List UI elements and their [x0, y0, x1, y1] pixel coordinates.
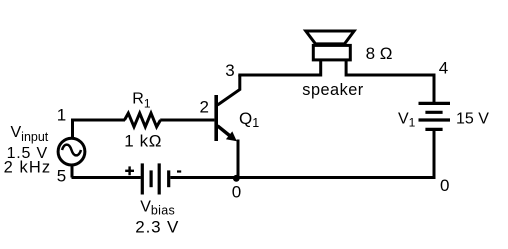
speaker terminals: [321, 60, 346, 77]
junction dot node 0: [233, 175, 240, 182]
svg-text:R1: R1: [132, 90, 151, 110]
svg-text:Q1: Q1: [239, 109, 259, 130]
transistor Q1 base bar: [214, 95, 218, 141]
battery V_bias: [142, 163, 168, 194]
speaker horn: [306, 31, 354, 44]
wire: bottom net left segment: [72, 176, 141, 179]
speaker box: [313, 45, 350, 60]
svg-text:1 kΩ: 1 kΩ: [124, 132, 162, 151]
svg-text:Vbias: Vbias: [140, 199, 175, 218]
svg-text:0: 0: [232, 182, 241, 201]
svg-text:5: 5: [57, 167, 66, 186]
svg-text:Vinput: Vinput: [11, 124, 49, 144]
svg-text:8 Ω: 8 Ω: [366, 44, 393, 63]
wire: node 1 corner (source top to resistor): [73, 120, 126, 139]
wire: emitter to node 0: [237, 140, 240, 178]
svg-text:15 V: 15 V: [456, 110, 489, 127]
polarity minus: [177, 170, 181, 172]
transistor Q1 emitter with arrow: [218, 126, 237, 141]
polarity plus: [125, 166, 134, 175]
svg-text:1: 1: [57, 105, 66, 124]
resistor R1: [125, 113, 161, 127]
battery V1: [419, 103, 451, 129]
wire: resistor to base: [160, 119, 214, 122]
wire: collector to speaker (top net left): [238, 74, 322, 77]
svg-text:2: 2: [200, 97, 209, 116]
svg-text:2 kHz: 2 kHz: [4, 159, 52, 177]
svg-text:speaker: speaker: [302, 81, 364, 99]
wire: speaker to node 4 (top net right): [346, 75, 434, 102]
AC source V_input: [58, 138, 85, 165]
svg-text:0: 0: [440, 176, 449, 195]
svg-text:V1: V1: [398, 110, 416, 129]
wire: battery to node 0 right: [433, 129, 436, 177]
svg-text:3: 3: [225, 61, 234, 80]
svg-text:4: 4: [439, 59, 448, 78]
svg-text:2.3 V: 2.3 V: [135, 218, 179, 237]
wire: source bottom stub: [71, 165, 74, 178]
transistor Q1 collector: [218, 75, 240, 105]
wire: bottom net right segment: [170, 176, 435, 179]
